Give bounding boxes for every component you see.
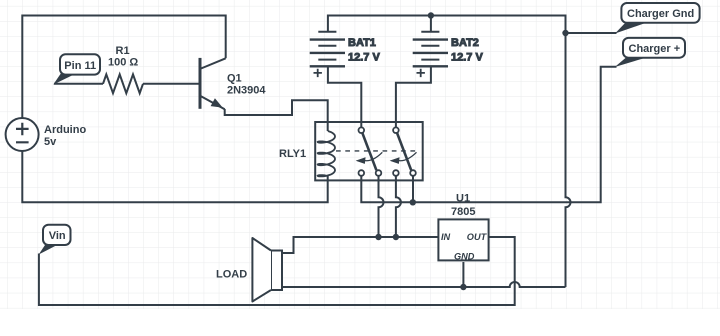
svg-text:RLY1: RLY1 <box>279 148 306 160</box>
voltage source V1 Arduino 5v <box>6 118 87 151</box>
relay switch 1 blade and arrow <box>357 133 383 170</box>
svg-text:Q1: Q1 <box>227 73 242 85</box>
relay coil <box>318 131 335 176</box>
resistor R1 100 Ohm <box>103 45 143 93</box>
svg-text:Pin 11: Pin 11 <box>64 60 96 72</box>
junction node charger gnd tap <box>562 30 568 36</box>
callout Charger Gnd <box>615 3 700 34</box>
svg-text:5v: 5v <box>44 136 57 148</box>
wire relay sw2 throw-left down to IN net (hop) <box>396 176 401 237</box>
svg-text:Vin: Vin <box>49 230 66 242</box>
svg-text:BAT2: BAT2 <box>451 37 479 49</box>
transistor Q1 2N3904 <box>200 58 266 109</box>
svg-text:BAT1: BAT1 <box>348 37 376 49</box>
callout Vin <box>39 225 71 255</box>
svg-text:LOAD: LOAD <box>216 269 247 281</box>
svg-text:Charger +: Charger + <box>629 43 681 55</box>
wire BAT2 plus to relay sw2 common <box>396 66 431 127</box>
wire base: pin11 to resistor to Q1 base <box>54 83 199 85</box>
wire source - to relay coil bottom <box>22 151 327 202</box>
wire BAT2 minus stub <box>430 16 432 32</box>
wire BAT1 plus to relay sw1 common <box>328 66 361 127</box>
junction node sw1 throw/IN rail <box>375 234 381 240</box>
wire U1 OUT to bottom rail to Vin <box>39 237 515 305</box>
svg-text:GND: GND <box>454 252 475 262</box>
wire battery minus top rail to charger gnd vertical (hop at y=202) <box>328 16 571 288</box>
junction node sw2 throw/IN rail <box>393 234 399 240</box>
relay contact pins <box>359 127 416 175</box>
svg-text:12.7 V: 12.7 V <box>451 52 483 64</box>
callout Pin 11 <box>53 54 100 84</box>
svg-text:Arduino: Arduino <box>44 124 86 136</box>
battery BAT2 12.7 V <box>413 32 484 77</box>
junction node U1 gnd rail <box>460 284 466 290</box>
svg-text:IN: IN <box>441 232 451 242</box>
speaker LOAD <box>216 238 282 302</box>
wire relay sw2 throw-right stub <box>412 176 414 203</box>
relay switch 2 blade and arrow <box>391 133 417 170</box>
wire load bottom to U1 gnd to charger-gnd vertical (hop at x=514.7) <box>282 282 566 287</box>
wire charger gnd tail stub <box>566 32 617 34</box>
regulator U1 7805 <box>438 193 488 262</box>
wire top-left net: source + to collector <box>22 16 225 119</box>
svg-text:Charger Gnd: Charger Gnd <box>627 8 694 20</box>
svg-text:7805: 7805 <box>451 206 475 218</box>
wire relay sw1 throw-left to charger plus <box>361 67 616 203</box>
svg-text:100 Ω: 100 Ω <box>108 57 138 69</box>
wire load top to U1 IN <box>282 237 439 253</box>
svg-text:12.7 V: 12.7 V <box>348 52 380 64</box>
wire U1 GND pin <box>462 262 464 287</box>
battery BAT1 12.7 V <box>310 32 381 77</box>
callout Charger + <box>615 38 685 67</box>
wire emitter to coil top <box>225 100 328 131</box>
svg-text:U1: U1 <box>456 193 470 205</box>
relay RLY1 box <box>279 122 423 180</box>
wire relay sw1 throw-right down to IN net (hop) <box>379 176 384 237</box>
svg-text:OUT: OUT <box>467 232 488 242</box>
svg-text:2N3904: 2N3904 <box>227 84 266 96</box>
junction node BAT2/top rail <box>428 12 434 18</box>
junction node sw2 throw/charger plus rail <box>410 199 416 205</box>
svg-text:R1: R1 <box>116 45 130 57</box>
relay dashed link <box>336 150 417 152</box>
